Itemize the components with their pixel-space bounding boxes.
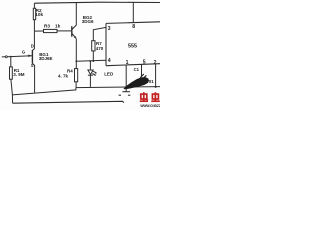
pin 5 wire to capacitor C1 [141,64,143,76]
label BG2 3DG6 [82,15,94,24]
wire node to JFET drain [33,31,35,50]
resistor R7 [92,27,106,61]
watermark leg marks [119,94,131,96]
resistor R1 [10,57,13,104]
pin 1 wire to ground [125,65,127,92]
transistor Q BG2 [72,2,77,38]
svg-text:D: D [31,43,34,48]
svg-text:3DG6: 3DG6 [82,19,94,24]
svg-text:4. 7k: 4. 7k [58,74,69,79]
svg-text:3DJ6E: 3DJ6E [39,56,53,61]
label R7 470 [96,41,104,51]
label BG1 3DJ6E [39,52,53,61]
label R4 4.7k [58,68,73,78]
svg-text:3. 9M: 3. 9M [13,72,25,77]
svg-text:G: G [22,50,25,55]
svg-text:S: S [31,63,34,68]
resistor R2 [33,3,35,31]
watermark bug logo [123,77,149,89]
svg-text:8: 8 [132,24,135,30]
ground bar under pin1 [122,91,130,93]
pin 2 wire [155,64,157,87]
svg-text:4: 4 [108,58,111,64]
wire B ground bus [76,87,160,88]
resistor R3 [34,29,71,32]
svg-text:470: 470 [96,46,104,51]
svg-text:R3: R3 [44,23,50,28]
label R1 3.9M [13,68,25,77]
svg-text:01: 01 [149,79,155,84]
svg-text:10k: 10k [35,12,43,17]
node junction dots on wire D [75,60,77,62]
watermark char 1 [140,92,148,101]
svg-text:3: 3 [108,26,111,32]
watermark char 2 [151,92,160,101]
IC U1 555 box [106,22,160,66]
svg-text:1k: 1k [55,23,61,28]
LED D1 [88,61,96,87]
wire C bottom rail [13,101,124,103]
svg-text:LED: LED [104,72,114,77]
wire E source return [12,88,76,95]
pin 8 wire [132,2,134,22]
svg-text:555: 555 [128,44,137,50]
svg-text:C1: C1 [134,67,140,72]
wire top supply rail [34,2,160,3]
label R2 10k [35,8,43,17]
svg-text:WWW.CNDZZ.C: WWW.CNDZZ.C [140,104,160,108]
input terminal [2,56,5,58]
svg-text:5: 5 [143,60,146,66]
resistor R4 [75,69,78,88]
wire D emitter node to pin4 [76,60,106,61]
wire BG2 emitter down to R4 [75,39,77,69]
background [0,0,160,110]
wire gate input [7,55,32,58]
transistor BG1 JFET [32,50,34,93]
